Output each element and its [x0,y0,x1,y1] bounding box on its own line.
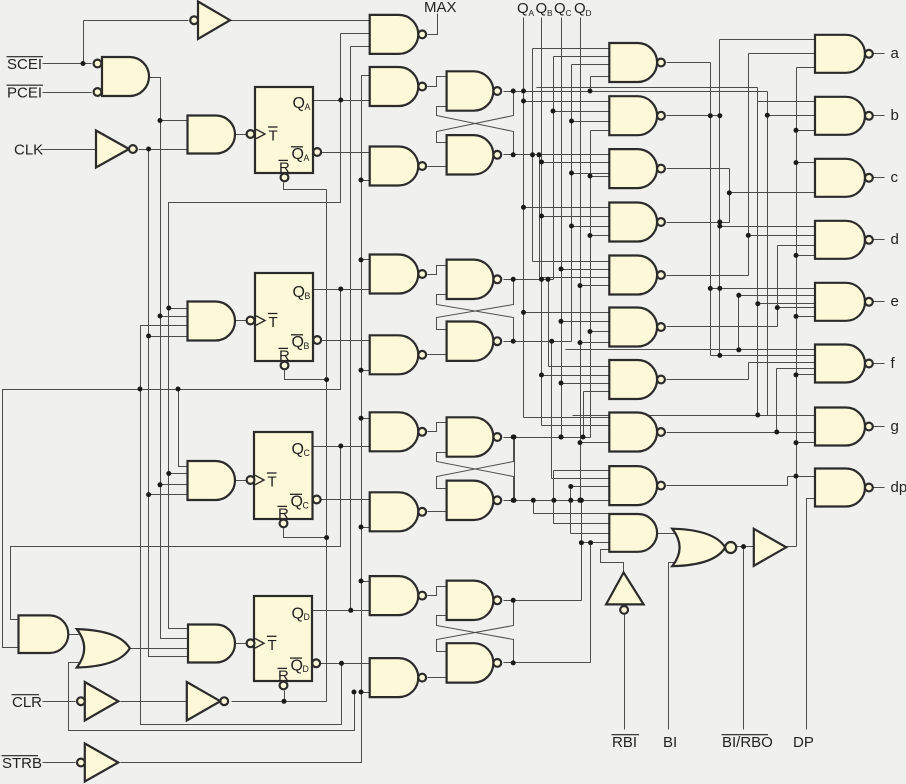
svg-text:c: c [891,169,899,186]
svg-text:Q: Q [536,0,548,17]
svg-text:DP: DP [793,734,814,751]
svg-text:PCEI: PCEI [7,85,42,102]
svg-text:C: C [304,448,311,458]
svg-text:R: R [278,506,289,523]
svg-text:BI/RBO: BI/RBO [722,734,773,751]
svg-text:C: C [303,500,310,510]
svg-text:Q: Q [292,441,304,458]
svg-text:Q: Q [293,95,305,112]
svg-text:T: T [268,637,277,654]
svg-text:Q: Q [292,146,304,163]
svg-text:Q: Q [554,0,566,17]
svg-text:Q: Q [292,334,304,351]
svg-text:B: B [304,341,310,351]
svg-text:MAX: MAX [424,0,457,16]
svg-text:CLR: CLR [12,694,42,711]
svg-text:dp: dp [891,479,906,496]
svg-text:Q: Q [292,605,304,622]
svg-text:CLK: CLK [14,142,43,159]
svg-text:b: b [891,107,899,124]
svg-text:T: T [269,314,278,331]
svg-text:A: A [305,102,311,112]
svg-text:RBI: RBI [612,734,637,751]
svg-text:g: g [891,418,899,435]
svg-text:BI: BI [663,734,677,751]
svg-text:Q: Q [517,0,529,17]
svg-text:d: d [891,231,899,248]
svg-text:Q: Q [574,0,586,17]
svg-text:A: A [304,153,310,163]
svg-text:R: R [279,348,290,365]
svg-text:B: B [547,8,553,18]
svg-text:D: D [303,664,309,674]
svg-text:C: C [566,8,572,18]
svg-text:B: B [305,291,311,301]
svg-text:e: e [891,293,899,310]
svg-text:R: R [279,160,290,177]
svg-text:Q: Q [291,494,303,511]
svg-text:D: D [586,8,592,18]
svg-text:Q: Q [293,284,305,301]
svg-text:T: T [269,128,278,145]
svg-text:T: T [268,474,277,491]
svg-text:Q: Q [291,657,303,674]
svg-text:R: R [278,668,289,685]
svg-text:D: D [304,612,310,622]
svg-text:a: a [891,45,900,62]
svg-text:SCEI: SCEI [7,56,42,73]
svg-text:STRB: STRB [2,755,42,772]
svg-text:A: A [529,8,535,18]
